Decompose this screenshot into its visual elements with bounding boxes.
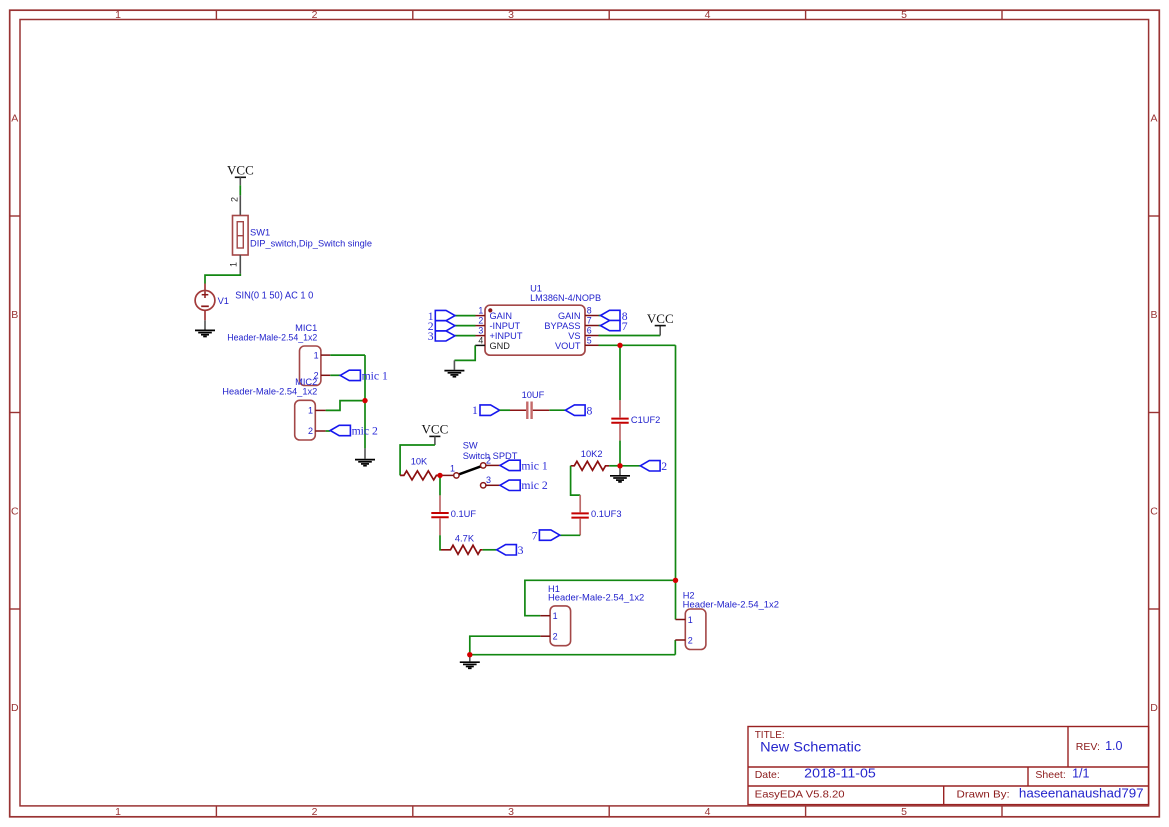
resistor 10K bbox=[400, 456, 440, 480]
svg-text:Header-Male-2.54_1x2: Header-Male-2.54_1x2 bbox=[227, 333, 317, 343]
net flag 8 (U1 right) bbox=[601, 310, 628, 323]
svg-text:2: 2 bbox=[312, 806, 318, 818]
svg-text:3: 3 bbox=[508, 806, 514, 818]
frame ruler numbers top 1-5 bbox=[115, 9, 907, 21]
svg-text:10K2: 10K2 bbox=[581, 449, 603, 459]
ground under V1 bbox=[195, 320, 215, 336]
net flag 7 (U1 right) bbox=[601, 320, 628, 333]
header H1 body bbox=[550, 606, 571, 646]
ground bottom bbox=[460, 655, 480, 669]
wire U1 pin6 VS to VCC bbox=[599, 335, 661, 337]
svg-text:5: 5 bbox=[901, 806, 907, 818]
header H2 labels bbox=[683, 590, 779, 609]
capacitor 0.1UF bbox=[431, 495, 476, 535]
svg-text:Header-Male-2.54_1x2: Header-Male-2.54_1x2 bbox=[548, 593, 644, 603]
net flag 8 (10UF right) bbox=[565, 405, 592, 418]
svg-text:D: D bbox=[1150, 702, 1158, 714]
wire MIC2 pin2 to flag bbox=[326, 430, 331, 432]
wire SW1 to V1 bbox=[205, 274, 240, 284]
svg-text:U1: U1 bbox=[530, 284, 542, 294]
wires input flags to U1 pins 1-3 bbox=[455, 316, 476, 336]
svg-text:D: D bbox=[11, 702, 19, 714]
svg-text:2: 2 bbox=[312, 9, 318, 21]
svg-text:7: 7 bbox=[532, 529, 538, 542]
svg-text:VS: VS bbox=[568, 331, 580, 341]
svg-text:3: 3 bbox=[486, 475, 491, 485]
switch SW pin3 contact bbox=[481, 483, 486, 488]
net flag 2 (right of 10K2) bbox=[640, 460, 667, 473]
wire bottom ground bus bbox=[470, 654, 676, 656]
header MIC2 labels bbox=[222, 377, 317, 397]
wire VCC to 10K bbox=[400, 445, 435, 475]
dip switch SW1 pin 2 lead bbox=[230, 195, 241, 215]
switch SW pin2 contact bbox=[481, 463, 486, 468]
MIC2 pin 2 bbox=[308, 426, 326, 436]
svg-text:4: 4 bbox=[705, 9, 711, 21]
svg-text:haseenanaushad797: haseenanaushad797 bbox=[1019, 787, 1144, 801]
svg-text:mic 2: mic 2 bbox=[352, 425, 378, 438]
svg-text:GAIN: GAIN bbox=[558, 311, 580, 321]
wire junction to flag2 bbox=[620, 465, 640, 467]
svg-text:2: 2 bbox=[308, 426, 313, 436]
svg-text:1: 1 bbox=[450, 464, 455, 474]
svg-text:B: B bbox=[1150, 309, 1157, 321]
capacitor C1UF2 bbox=[611, 400, 660, 440]
wire 0.1UF3 to flag7 bbox=[560, 534, 580, 536]
svg-text:2: 2 bbox=[230, 197, 240, 202]
svg-text:4.7K: 4.7K bbox=[455, 534, 475, 544]
V1 labels bbox=[218, 291, 314, 306]
svg-text:3: 3 bbox=[428, 330, 434, 343]
svg-text:MIC1: MIC1 bbox=[295, 323, 317, 333]
svg-text:Date:: Date: bbox=[755, 769, 780, 781]
net flag mic 2 (at switch) bbox=[500, 479, 548, 492]
svg-text:1: 1 bbox=[478, 306, 483, 316]
wire 10UF to flag8 bbox=[549, 409, 565, 411]
svg-text:7: 7 bbox=[622, 320, 628, 333]
power flag VCC (top, net VCC) bbox=[227, 163, 254, 186]
junction 10K2 / C1UF2 / ground / flag2 bbox=[617, 463, 622, 468]
svg-text:5: 5 bbox=[587, 335, 592, 345]
svg-text:8: 8 bbox=[587, 306, 592, 316]
svg-text:1: 1 bbox=[308, 406, 313, 416]
dip switch SW1 pin 1 lead bbox=[229, 255, 241, 274]
switch SW labels bbox=[463, 440, 518, 461]
junction at mic net bbox=[362, 398, 367, 403]
net flag mic 1 (at switch) bbox=[500, 459, 548, 472]
net flag 1 (10UF left) bbox=[472, 404, 500, 417]
svg-text:2: 2 bbox=[486, 455, 491, 465]
svg-text:SW1: SW1 bbox=[250, 228, 270, 238]
svg-text:1: 1 bbox=[688, 615, 693, 625]
H1 pin 1 bbox=[540, 611, 557, 621]
wire vertical mic ground net bbox=[364, 355, 366, 448]
wire H1 pin2 to ground bbox=[470, 636, 541, 655]
frame ruler letters left A-D bbox=[11, 113, 19, 714]
wire MIC2 pin1 to vertical net bbox=[326, 401, 365, 411]
svg-text:Header-Male-2.54_1x2: Header-Male-2.54_1x2 bbox=[683, 599, 779, 609]
wire VOUT vertical long bbox=[675, 345, 677, 580]
svg-text:2: 2 bbox=[688, 635, 693, 645]
MIC2 pin 1 bbox=[308, 406, 326, 416]
svg-text:REV:: REV: bbox=[1076, 741, 1100, 753]
wire 10K2 left down to 0.1UF3 bbox=[571, 466, 581, 495]
switch pin3 lead to flag bbox=[486, 484, 500, 486]
wire flag1 to 10UF bbox=[500, 409, 510, 411]
junction 10K / switch / 0.1UF bbox=[437, 473, 442, 478]
svg-text:LM386N-4/NOPB: LM386N-4/NOPB bbox=[530, 293, 601, 303]
svg-text:C: C bbox=[11, 505, 19, 517]
switch SW lever bbox=[459, 466, 481, 474]
H1 pin 2 bbox=[540, 632, 557, 642]
MIC1 pin 2 bbox=[314, 371, 331, 381]
wire junction down to C1UF2 bbox=[619, 345, 621, 400]
svg-text:GAIN: GAIN bbox=[490, 311, 512, 321]
wire 0.1UF to 4.7K bbox=[440, 535, 441, 550]
IC U1 labels bbox=[530, 284, 601, 304]
svg-text:Drawn By:: Drawn By: bbox=[957, 789, 1010, 801]
frame ruler ticks top bbox=[216, 10, 1002, 19]
U1 pin 1 lead bbox=[476, 315, 486, 317]
svg-text:7: 7 bbox=[587, 316, 592, 326]
capacitor 0.1UF3 bbox=[571, 495, 621, 535]
wire 10K2 to junction bbox=[609, 465, 620, 467]
svg-text:EasyEDA V5.8.20: EasyEDA V5.8.20 bbox=[755, 789, 845, 801]
header MIC2 body bbox=[295, 400, 316, 440]
svg-text:DIP_switch,Dip_Switch single: DIP_switch,Dip_Switch single bbox=[250, 238, 372, 248]
power flag VCC (right of U1) bbox=[647, 311, 674, 336]
SW1 labels bbox=[250, 228, 372, 249]
svg-text:C: C bbox=[1150, 505, 1158, 517]
H2 pin 2 bbox=[675, 635, 693, 645]
svg-text:3: 3 bbox=[518, 544, 524, 557]
svg-text:1.0: 1.0 bbox=[1105, 739, 1122, 753]
wire 4.7K to flag3 bbox=[483, 549, 497, 551]
wire MIC1 pin1 to vertical net bbox=[330, 354, 365, 356]
net flag 2 (U1 input) bbox=[428, 320, 455, 333]
svg-text:4: 4 bbox=[705, 806, 711, 818]
U1 pin 6 lead (VS) bbox=[585, 335, 599, 337]
wires U1 pins 8,7 to flags bbox=[599, 316, 601, 326]
svg-text:VCC: VCC bbox=[227, 163, 254, 178]
svg-text:VOUT: VOUT bbox=[555, 341, 581, 351]
svg-text:B: B bbox=[11, 309, 18, 321]
svg-text:5: 5 bbox=[901, 9, 907, 21]
U1 pin numbers bbox=[478, 306, 591, 346]
svg-text:1: 1 bbox=[472, 404, 478, 417]
svg-text:VCC: VCC bbox=[422, 422, 449, 437]
wire H2 pin2 down to ground bus bbox=[674, 640, 676, 655]
svg-text:VCC: VCC bbox=[647, 311, 674, 326]
junction bottom ground bbox=[467, 652, 472, 657]
svg-text:MIC2: MIC2 bbox=[295, 377, 317, 387]
svg-text:2018-11-05: 2018-11-05 bbox=[804, 767, 876, 781]
wire U1 pin5 VOUT right bbox=[599, 344, 676, 346]
svg-text:GND: GND bbox=[490, 341, 511, 351]
U1 pin 8 lead bbox=[585, 315, 599, 317]
wire U1 pin4 to ground bbox=[454, 345, 475, 360]
svg-text:1/1: 1/1 bbox=[1072, 767, 1089, 781]
header MIC1 body bbox=[300, 346, 321, 386]
wire MIC1 pin2 to flag bbox=[330, 374, 340, 376]
net flag 3 (U1 input) bbox=[428, 330, 455, 343]
svg-text:0.1UF: 0.1UF bbox=[451, 509, 477, 519]
svg-text:Sheet:: Sheet: bbox=[1035, 769, 1065, 781]
switch SW pin numbers bbox=[450, 455, 491, 485]
svg-text:10K: 10K bbox=[411, 456, 428, 466]
frame ruler ticks right bbox=[1149, 216, 1160, 609]
svg-text:3: 3 bbox=[478, 326, 483, 336]
svg-text:+INPUT: +INPUT bbox=[490, 331, 523, 341]
net flag 3 (4.7K) bbox=[497, 544, 524, 557]
svg-text:0.1UF3: 0.1UF3 bbox=[591, 509, 622, 519]
frame ruler ticks left bbox=[10, 216, 20, 609]
svg-text:2: 2 bbox=[661, 460, 667, 473]
junction H1/H2 top bbox=[673, 578, 678, 583]
switch SW pin1 lead bbox=[440, 474, 454, 476]
net flag mic 1 (at MIC1) bbox=[340, 369, 388, 382]
svg-text:1: 1 bbox=[115, 9, 121, 21]
svg-text:New Schematic: New Schematic bbox=[760, 739, 861, 755]
svg-text:A: A bbox=[11, 113, 18, 125]
wire junction down to 0.1UF bbox=[439, 475, 441, 495]
frame ruler ticks bottom bbox=[216, 806, 1002, 817]
header MIC1 labels bbox=[227, 323, 317, 343]
title block texts bbox=[755, 730, 1144, 801]
H2 pin 1 bbox=[676, 615, 693, 625]
voltage source V1 bbox=[195, 284, 215, 321]
svg-text:-INPUT: -INPUT bbox=[490, 321, 521, 331]
svg-text:mic 1: mic 1 bbox=[362, 369, 388, 382]
switch SW pin1 contact bbox=[454, 473, 459, 478]
svg-text:4: 4 bbox=[478, 336, 483, 346]
svg-text:1: 1 bbox=[553, 611, 558, 621]
svg-text:mic 2: mic 2 bbox=[521, 479, 547, 492]
MIC1 pin 1 bbox=[314, 350, 331, 360]
svg-text:2: 2 bbox=[553, 632, 558, 642]
wire VOUT net to H1 bbox=[525, 580, 676, 615]
svg-text:3: 3 bbox=[508, 9, 514, 21]
dip switch SW1 body bbox=[233, 216, 249, 256]
svg-text:SIN(0 1 50) AC 1 0: SIN(0 1 50) AC 1 0 bbox=[235, 291, 314, 302]
U1 pin 4 lead (GND) bbox=[475, 344, 485, 346]
wire C1UF2 to junction below bbox=[619, 441, 621, 466]
net flag 7 (below 10K2) bbox=[532, 529, 560, 542]
svg-text:SW: SW bbox=[463, 440, 478, 450]
svg-text:10UF: 10UF bbox=[522, 390, 545, 400]
svg-text:C1UF2: C1UF2 bbox=[631, 415, 660, 425]
U1 pin 7 lead bbox=[585, 325, 599, 327]
ground under mic net bbox=[355, 448, 375, 465]
svg-text:2: 2 bbox=[478, 316, 483, 326]
svg-text:Header-Male-2.54_1x2: Header-Male-2.54_1x2 bbox=[222, 387, 317, 397]
frame ruler numbers bottom 1-5 bbox=[115, 806, 907, 818]
svg-text:1: 1 bbox=[314, 350, 319, 360]
svg-text:BYPASS: BYPASS bbox=[544, 321, 580, 331]
title block bbox=[748, 727, 1149, 805]
U1 pin 2 lead bbox=[476, 325, 486, 327]
svg-text:1: 1 bbox=[115, 806, 121, 818]
svg-text:A: A bbox=[1150, 113, 1157, 125]
junction VOUT / C1UF2 bbox=[617, 343, 622, 348]
switch pin2 lead to flag bbox=[486, 464, 500, 466]
svg-text:6: 6 bbox=[587, 326, 592, 336]
net flag 1 (U1 input) bbox=[428, 310, 455, 323]
header H1 labels bbox=[548, 584, 644, 603]
capacitor 10UF bbox=[510, 390, 549, 419]
frame ruler letters right A-D bbox=[1150, 113, 1158, 714]
IC U1 LM386N-4/NOPB body bbox=[485, 305, 585, 355]
wire junction down to H2 pin1 bbox=[675, 580, 677, 619]
ground under 10K2 junction bbox=[610, 466, 630, 482]
svg-text:V1: V1 bbox=[218, 296, 229, 306]
svg-text:mic 1: mic 1 bbox=[521, 459, 547, 472]
header H2 body bbox=[685, 609, 706, 650]
net flag mic 2 (at MIC2) bbox=[330, 425, 378, 438]
svg-text:8: 8 bbox=[587, 405, 593, 418]
power flag VCC (above 10K) bbox=[422, 422, 449, 445]
svg-text:1: 1 bbox=[229, 262, 239, 267]
ground under U1 pin4 bbox=[444, 360, 464, 376]
U1 pin 5 lead (VOUT) bbox=[585, 344, 599, 346]
wire VCC to SW1 pin2 bbox=[239, 185, 241, 195]
resistor 10K2 bbox=[571, 449, 610, 470]
U1 pin names bbox=[490, 311, 581, 351]
resistor 4.7K bbox=[441, 534, 483, 555]
U1 pin 3 lead bbox=[476, 335, 486, 337]
